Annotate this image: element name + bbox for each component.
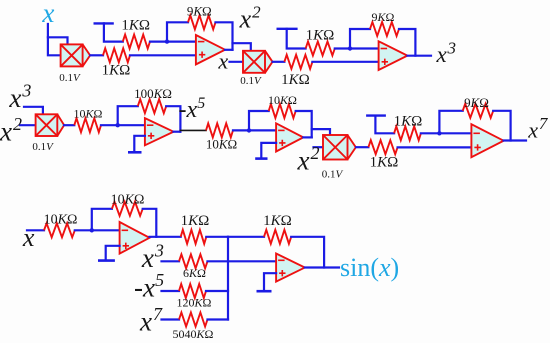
- ground bar G3: [128, 151, 142, 154]
- svg-text:100KΩ: 100KΩ: [134, 86, 172, 101]
- wire R12 to U5 minus input: [421, 132, 472, 134]
- svg-text:-x: -x: [179, 97, 198, 123]
- svg-text:5040KΩ: 5040KΩ: [173, 327, 214, 341]
- op-amp U1: [196, 35, 225, 64]
- svg-text:sin(x): sin(x): [340, 253, 399, 282]
- wire R14 to U6 minus input: [75, 229, 120, 231]
- value label 10Kohm above R7: [74, 107, 103, 121]
- wire R15 to U6 output node: [143, 209, 157, 237]
- wire G1 to R1: [104, 23, 123, 41]
- value label 100Kohm above R8: [134, 86, 172, 101]
- wire U4 output: [303, 136, 311, 138]
- wire U3 output to R9 black segment: [180, 129, 206, 131]
- svg-text:10KΩ: 10KΩ: [268, 93, 297, 107]
- wire x7 to R19: [162, 318, 180, 320]
- resistor R18 120Kohm summing rail3: [179, 284, 206, 298]
- wire minus x5 to R18: [162, 290, 180, 292]
- node x squared label stage1 out: [239, 2, 262, 33]
- node x cubed label stage2 out: [436, 38, 457, 67]
- resistor R1 1Kohm upper stage1: [123, 35, 150, 49]
- node x squared label at M4: [297, 143, 320, 175]
- wire R20 to U7 output node: [291, 237, 324, 268]
- svg-text:x: x: [527, 118, 538, 143]
- svg-text:120KΩ: 120KΩ: [177, 296, 212, 310]
- wire feedback up U5: [439, 111, 462, 134]
- svg-text:6KΩ: 6KΩ: [183, 266, 206, 280]
- wire U3 output: [174, 131, 181, 133]
- ground bar G4: [255, 157, 267, 160]
- svg-text:x: x: [297, 146, 310, 176]
- svg-text:x: x: [141, 243, 154, 273]
- ground bar G6: [98, 259, 115, 262]
- wire bus to R20 feedback: [228, 236, 264, 238]
- svg-text:x: x: [8, 83, 21, 113]
- svg-text:10KΩ: 10KΩ: [111, 192, 145, 207]
- wire branch x to M1 top input: [48, 37, 68, 44]
- wire R4 to U2 minus input: [335, 47, 379, 49]
- wire R16 to summing bus: [206, 236, 228, 238]
- value label 0.1V for M4: [322, 169, 344, 181]
- wire R5 to U2 plus input: [312, 61, 378, 63]
- svg-text:2: 2: [252, 2, 261, 21]
- svg-text:1KΩ: 1KΩ: [121, 18, 150, 34]
- node x squared input label row2: [0, 114, 22, 146]
- value label 1Kohm below R2: [102, 63, 131, 79]
- svg-text:x: x: [239, 4, 252, 33]
- wire M1 output to R2: [90, 54, 103, 56]
- wire from x to multiplier M1 left input: [48, 24, 61, 55]
- resistor R9 10Kohm to U4: [206, 123, 233, 137]
- wire feedback up stage1: [167, 22, 188, 41]
- value label 1Kohm above R4: [306, 28, 335, 44]
- value label 10Kohm above R15: [111, 192, 145, 207]
- svg-text:9KΩ: 9KΩ: [187, 3, 212, 18]
- svg-text:3: 3: [154, 241, 164, 261]
- svg-text:1KΩ: 1KΩ: [181, 213, 210, 229]
- node x power7 input label row3: [139, 304, 163, 336]
- junction node U3 minus: [116, 123, 120, 127]
- svg-text:0.1V: 0.1V: [322, 169, 344, 181]
- value label 1Kohm above R1: [121, 18, 150, 34]
- svg-text:x: x: [436, 42, 448, 67]
- svg-text:x: x: [139, 307, 152, 337]
- value label 9Kohm above R6: [372, 10, 395, 24]
- svg-text:10KΩ: 10KΩ: [44, 212, 78, 227]
- wire R11 to U5 plus input: [398, 146, 472, 148]
- wire x to R14: [27, 229, 44, 231]
- svg-text:1KΩ: 1KΩ: [263, 213, 292, 229]
- multiplier M2: [243, 51, 273, 73]
- svg-text:x: x: [217, 49, 228, 74]
- wire R18 to summing bus: [206, 290, 228, 292]
- resistor R11 1Kohm from M4: [368, 140, 397, 154]
- node x power7 label row2 out: [527, 114, 549, 142]
- multiplier M3: [36, 114, 65, 136]
- svg-text:2: 2: [311, 143, 320, 163]
- wire U5 output: [504, 139, 526, 141]
- ground bar G5: [366, 114, 386, 116]
- wire R19 to summing bus: [208, 318, 229, 320]
- wire R2 to U1 plus input: [130, 54, 196, 56]
- resistor R3 9Kohm feedback stage1: [188, 15, 216, 29]
- wire feedback up U3: [118, 106, 138, 125]
- resistor R12 1Kohm upper U5: [394, 126, 421, 140]
- wire U6 output rail1: [150, 236, 181, 238]
- value label 9Kohm above R3: [187, 3, 212, 18]
- wire U7 plus to ground G7: [264, 273, 276, 290]
- svg-text:1KΩ: 1KΩ: [370, 155, 399, 171]
- svg-text:3: 3: [21, 81, 31, 101]
- wire R8 to U3 output node: [166, 106, 180, 132]
- wire R1 to U1 minus input: [150, 40, 196, 42]
- wire M2 output to R5: [273, 61, 285, 63]
- wire U4 output to M4 top input: [312, 129, 330, 135]
- wire x3 to R17: [162, 260, 180, 262]
- multiplier M4: [323, 135, 356, 160]
- wire R9 to U4 minus input: [233, 129, 276, 131]
- svg-text:2: 2: [13, 114, 22, 134]
- value label 1Kohm above R12: [394, 113, 423, 129]
- resistor R10 10Kohm feedback U4: [269, 104, 296, 118]
- svg-text:7: 7: [153, 304, 163, 324]
- svg-text:10KΩ: 10KΩ: [206, 137, 237, 152]
- value label 10Kohm below R9: [206, 137, 237, 152]
- value label 0.1V for M1: [59, 72, 81, 84]
- resistor R4 1Kohm upper stage2: [306, 42, 335, 56]
- resistor R20 1Kohm feedback U7: [264, 230, 291, 244]
- wire x3 to M3 top input: [24, 107, 43, 115]
- resistor R19 5040Kohm summing rail4: [179, 313, 208, 327]
- wire R17 to U7 minus input: [208, 260, 277, 262]
- value label 1Kohm above R16: [181, 213, 210, 229]
- node x cubed input label row2: [8, 81, 31, 113]
- value label 0.1V for M2: [240, 75, 262, 87]
- wire G2 to R4: [287, 29, 306, 49]
- wire M4 output to R11: [356, 146, 368, 148]
- op-amp U2: [379, 41, 408, 70]
- value label 5040Kohm below R19: [173, 327, 214, 341]
- svg-text:0.1V: 0.1V: [59, 72, 81, 84]
- wire feedback up stage2: [350, 29, 370, 49]
- value label 1Kohm above R20: [263, 213, 292, 229]
- wire U1 output: [225, 49, 233, 51]
- resistor R16 1Kohm summing rail1: [181, 230, 207, 244]
- op-amp U4: [276, 123, 303, 151]
- value label 10Kohm above R10: [268, 93, 297, 107]
- svg-text:3: 3: [447, 38, 457, 57]
- wire U2 output: [407, 55, 431, 57]
- value label 10Kohm above R14: [44, 212, 78, 227]
- wire R3 to U1 output node: [216, 22, 233, 50]
- svg-text:9KΩ: 9KΩ: [464, 95, 489, 110]
- wire R7 to U3 minus input: [101, 124, 145, 126]
- wire U4 plus to ground G4: [261, 143, 276, 158]
- wire U3 plus to ground G3: [134, 136, 145, 152]
- svg-text:x: x: [0, 116, 12, 146]
- summing bus vertical: [227, 237, 229, 320]
- junction node stage2 minus: [348, 46, 352, 50]
- wire U6 plus to ground G6: [106, 246, 120, 260]
- resistor R2 1Kohm lower stage1: [103, 48, 130, 62]
- value label 1Kohm below R11: [370, 155, 399, 171]
- value label 0.1V for M3: [32, 141, 54, 153]
- wire U1 output to M2 top input: [233, 43, 251, 51]
- wire R6 to U2 output node: [399, 29, 415, 56]
- svg-text:5: 5: [155, 270, 164, 290]
- svg-text:x: x: [22, 223, 35, 252]
- node sin(x) output label: [340, 253, 399, 282]
- wire M3 output to R7: [64, 124, 74, 126]
- svg-text:0.1V: 0.1V: [240, 75, 262, 87]
- svg-text:1KΩ: 1KΩ: [281, 72, 310, 88]
- svg-text:0.1V: 0.1V: [32, 141, 54, 153]
- op-amp U7: [276, 254, 305, 282]
- value label 6Kohm below R17: [183, 266, 206, 280]
- svg-text:9KΩ: 9KΩ: [372, 10, 395, 24]
- svg-text:7: 7: [539, 114, 549, 133]
- resistor R13 9Kohm feedback U5: [463, 104, 494, 118]
- node minus x power5 input label row3: [134, 270, 164, 302]
- op-amp U5: [471, 124, 503, 157]
- ground bar G7: [257, 290, 272, 293]
- svg-text:1KΩ: 1KΩ: [394, 113, 423, 129]
- node x cubed input label row3: [141, 241, 164, 273]
- value label 1Kohm below R5: [281, 72, 310, 88]
- wire feedback up U6: [92, 209, 112, 231]
- wire R10 to U4 output node: [296, 111, 312, 137]
- wire R13 to U5 output node: [493, 111, 510, 141]
- node x input label row3: [22, 223, 35, 252]
- resistor R8 100Kohm feedback U3: [138, 99, 166, 113]
- wire feedback up U4: [249, 111, 269, 130]
- node minus x power5 label row2: [179, 95, 206, 123]
- svg-text:-x: -x: [134, 273, 155, 303]
- ground bar G1: [94, 22, 114, 24]
- resistor R7 10Kohm row2: [74, 118, 101, 132]
- value label 9Kohm above R13: [464, 95, 489, 110]
- node x input label: [41, 0, 54, 28]
- multiplier M1: [61, 44, 91, 66]
- op-amp U6: [120, 222, 150, 254]
- ground bar G2: [277, 28, 298, 30]
- resistor R5 1Kohm lower stage2: [284, 55, 312, 69]
- wire x2 to M4 left input: [314, 146, 324, 148]
- resistor R15 10Kohm feedback U6: [112, 202, 143, 216]
- wire x2 to M3 left input: [20, 124, 36, 126]
- wire U7 output: [305, 266, 339, 268]
- op-amp U3: [145, 118, 174, 145]
- svg-text:x: x: [41, 0, 54, 28]
- junction node U6 minus: [90, 228, 94, 232]
- resistor R17 6Kohm summing rail2: [179, 254, 208, 268]
- resistor R14 10Kohm row3: [44, 223, 75, 237]
- node x label at M2 input: [217, 49, 228, 74]
- svg-text:1KΩ: 1KΩ: [102, 63, 131, 79]
- resistor R6 9Kohm feedback stage2: [370, 22, 399, 36]
- wire G5 to R12: [375, 116, 394, 134]
- junction node U5 minus: [437, 131, 441, 135]
- junction node stage1 minus: [165, 39, 169, 43]
- svg-text:1KΩ: 1KΩ: [306, 28, 335, 44]
- junction node U4 minus: [247, 128, 251, 132]
- svg-text:5: 5: [197, 95, 205, 112]
- wire x to M2 left input: [230, 61, 244, 63]
- svg-text:10KΩ: 10KΩ: [74, 107, 103, 121]
- value label 120Kohm below R18: [177, 296, 212, 310]
